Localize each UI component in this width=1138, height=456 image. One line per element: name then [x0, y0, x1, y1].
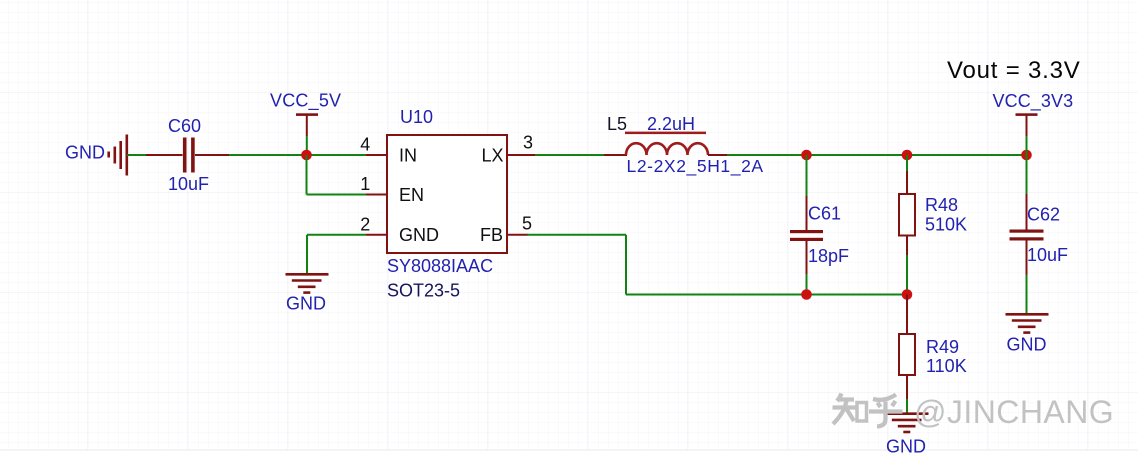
capacitor C62 lead bottom [1026, 241, 1028, 275]
wire [906, 399, 908, 413]
wire [306, 235, 308, 274]
pin 4 line (IN) [366, 154, 387, 156]
svg-text:C61: C61 [808, 204, 841, 224]
wire [306, 155, 308, 195]
junction node FB/R48/R49 [902, 289, 913, 300]
junction node VCC_3V3/C62 [1021, 150, 1032, 161]
wire [527, 234, 626, 236]
capacitor C60 lead left [146, 154, 183, 156]
capacitor C62 plates [1010, 230, 1044, 241]
svg-text:FB: FB [480, 225, 503, 245]
wire [626, 294, 907, 296]
wire [1026, 275, 1028, 314]
svg-text:VCC_5V: VCC_5V [270, 90, 341, 111]
junction node LX/C61 [801, 150, 812, 161]
svg-text:18pF: 18pF [808, 246, 849, 266]
svg-text:2: 2 [360, 215, 370, 235]
resistor R48 lead bottom [906, 236, 908, 256]
capacitor C62 lead top [1026, 194, 1028, 230]
svg-text:GND: GND [399, 225, 439, 245]
wire [535, 154, 605, 156]
svg-text:2.2uH: 2.2uH [647, 114, 695, 134]
svg-text:U10: U10 [400, 107, 433, 127]
ground symbol (pin 2) [286, 274, 329, 292]
ground symbol (R49) [886, 414, 929, 432]
svg-text:10uF: 10uF [168, 174, 209, 194]
pin 1 line (EN) [366, 194, 387, 196]
pin 5 line (FB) [507, 234, 528, 236]
svg-text:510K: 510K [925, 215, 967, 235]
svg-text:5: 5 [522, 214, 532, 234]
watermark 知 glyph [833, 394, 867, 425]
pin 2 line (GND) [366, 234, 387, 236]
capacitor C61 plates [790, 230, 823, 241]
svg-text:GND: GND [65, 143, 105, 163]
resistor R48 lead top [906, 171, 908, 194]
svg-text:110K: 110K [926, 356, 967, 376]
power port VCC_3V3 [993, 91, 1074, 155]
wire [806, 274, 808, 295]
capacitor C61 lead top [806, 196, 808, 230]
svg-text:GND: GND [886, 437, 926, 456]
wire [727, 154, 1027, 156]
wire [307, 234, 366, 236]
junction node VCC_5V/IN [301, 150, 312, 161]
resistor R49 lead top [906, 295, 908, 335]
svg-text:C62: C62 [1027, 205, 1060, 225]
svg-text:EN: EN [399, 185, 424, 205]
svg-text:IN: IN [399, 145, 417, 165]
svg-text:1: 1 [360, 174, 370, 194]
inductor L5 windings [626, 143, 708, 155]
wire [127, 154, 147, 156]
svg-text:L2-2X2_5H1_2A: L2-2X2_5H1_2A [627, 156, 764, 177]
wire [806, 155, 808, 196]
resistor R49 lead bottom [906, 375, 908, 399]
svg-text:3: 3 [523, 133, 533, 153]
svg-text:R48: R48 [925, 195, 958, 215]
underline (L5 value) [625, 132, 706, 135]
svg-text:LX: LX [481, 145, 503, 165]
junction node FB/C61 [801, 289, 812, 300]
wire [1026, 155, 1028, 194]
svg-text:GND: GND [1007, 335, 1047, 355]
svg-text:R49: R49 [926, 337, 959, 357]
op-amp U10 body (SY8088IAAC) [387, 135, 507, 253]
wire [229, 154, 366, 156]
svg-text:4: 4 [360, 135, 370, 155]
wire [906, 155, 908, 171]
svg-text:SY8088IAAC: SY8088IAAC [387, 256, 493, 276]
wire [625, 235, 627, 295]
inductor L5 lead left [604, 154, 627, 156]
svg-text:SOT23-5: SOT23-5 [387, 280, 460, 300]
ground symbol left (rotated, at C60 input) [109, 135, 127, 176]
svg-text:C60: C60 [168, 116, 201, 136]
wire [307, 194, 367, 196]
power port VCC_5V [270, 90, 341, 155]
resistor R48 body [899, 194, 915, 236]
capacitor C61 lead bottom [806, 241, 808, 274]
watermark 乎 glyph [869, 395, 903, 427]
svg-text:Vout = 3.3V: Vout = 3.3V [947, 57, 1081, 84]
svg-text:10uF: 10uF [1027, 245, 1068, 265]
pin 3 line (LX) [507, 154, 536, 156]
inductor L5 lead right [708, 154, 728, 156]
wire [906, 255, 908, 295]
svg-text:GND: GND [286, 294, 326, 314]
svg-text:VCC_3V3: VCC_3V3 [993, 91, 1074, 112]
resistor R49 body [899, 334, 915, 375]
capacitor C60 plates [183, 138, 195, 173]
junction node LX/R48 [902, 150, 913, 161]
svg-text:@JINCHANG: @JINCHANG [914, 394, 1114, 430]
capacitor C60 lead right [195, 154, 230, 156]
ground symbol (C62) [1006, 314, 1049, 332]
svg-text:L5: L5 [607, 114, 627, 134]
